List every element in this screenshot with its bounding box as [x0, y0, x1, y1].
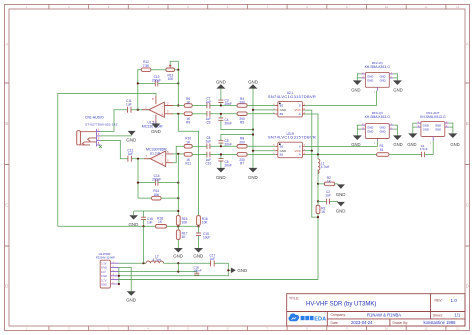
svg-text:SN74LVC1G3157DBVR: SN74LVC1G3157DBVR [268, 94, 316, 99]
ground right-facing at C17 [231, 268, 247, 274]
svg-text:1uF: 1uF [325, 194, 331, 198]
ground RF2 left [351, 80, 362, 92]
wire row2 R9-C9 [192, 113, 207, 115]
svg-text:3.3V: 3.3V [101, 261, 107, 265]
svg-text:20nF: 20nF [225, 122, 232, 126]
wire CN1 pin2 to gnd [101, 135, 132, 137]
wire H1 pin4 gnd row [119, 275, 228, 277]
ground above net [248, 80, 258, 89]
svg-text:TITLE:: TITLE: [289, 296, 299, 300]
EasyEDA logo [289, 313, 327, 322]
svg-text:GND: GND [173, 254, 183, 259]
node pin6 feedback junction [177, 153, 179, 155]
svg-text:GND: GND [101, 266, 107, 270]
svg-text:GND: GND [435, 128, 441, 132]
frame column ticks bottom [49, 326, 446, 331]
svg-text:B2: B2 [280, 104, 284, 108]
ground H1 [126, 291, 136, 302]
frame row ticks right [465, 83, 470, 246]
svg-text:1uF: 1uF [210, 257, 216, 261]
ground after C2 [336, 202, 346, 214]
wire R1 to C1 [389, 154, 422, 156]
ground after R2 [336, 184, 346, 196]
svg-text:-: - [162, 153, 163, 157]
node C5 gnd link [252, 133, 254, 135]
svg-text:Date:: Date: [331, 321, 339, 325]
svg-text:B2: B2 [280, 145, 284, 149]
svg-text:1uF: 1uF [206, 140, 212, 144]
svg-text:GND: GND [126, 138, 136, 143]
node gnd pin4 [118, 275, 120, 277]
IC U2-L SN74LVC1G3157 [268, 91, 316, 117]
svg-text:20nF: 20nF [225, 164, 232, 168]
svg-text:GND: GND [193, 254, 203, 259]
trimmer R13 [166, 65, 175, 81]
node C2 tap [317, 200, 319, 202]
svg-text:12: 12 [456, 327, 460, 331]
capacitor C10 [205, 152, 211, 166]
ground U1.1 pin4 [151, 124, 161, 134]
svg-text:A: A [466, 41, 469, 46]
capacitor C14 [152, 174, 161, 186]
svg-text:200pF: 200pF [152, 178, 161, 182]
wire U2 gnd pin row [253, 109, 275, 111]
svg-text:GND: GND [101, 283, 107, 287]
svg-text:GND: GND [216, 80, 226, 85]
node gnd net row1 [252, 109, 254, 111]
resistor R17 [176, 226, 187, 248]
ground below R17 [173, 248, 183, 259]
CN1 pin column [97, 129, 101, 147]
node C4 gnd link [252, 128, 254, 130]
wire U2 VCC down [305, 110, 312, 151]
wire R12 to R13 [151, 69, 166, 71]
node 3V3 row [177, 262, 179, 264]
node gnd pin6 [118, 283, 120, 285]
node C13 left [137, 82, 139, 84]
connector RF1-ANT [413, 111, 453, 145]
wire R7 to U3 pin B1 [247, 153, 275, 155]
capacitor C6 [218, 154, 231, 168]
node C6 row4 [220, 153, 222, 155]
svg-text:GND: GND [248, 80, 258, 85]
svg-text:C: C [5, 203, 8, 208]
resistor R10 [184, 137, 192, 148]
wire feedback vertical pin6 down [177, 154, 179, 216]
svg-text:MC33078DR: MC33078DR [142, 124, 163, 128]
resistor R4 [237, 97, 247, 107]
svg-text:GND: GND [380, 126, 386, 130]
svg-text:C10: C10 [205, 161, 211, 165]
wire R5 to U2 pin B1 [247, 113, 275, 115]
resistor R15 [176, 216, 188, 226]
svg-text:R1NAW & R1NBA: R1NAW & R1NBA [367, 312, 401, 317]
wire VCC down to R3 node [312, 151, 318, 217]
svg-text:S: S [299, 145, 301, 149]
svg-text:ST-0277D00-052-142: ST-0277D00-052-142 [85, 122, 118, 126]
resistor R3 [119, 201, 326, 279]
svg-text:GND: GND [367, 74, 373, 78]
svg-text:GND: GND [393, 142, 402, 147]
svg-text:R7: R7 [240, 161, 244, 165]
no-connect X on CN1 pin 5 [99, 145, 102, 148]
capacitor C18 [193, 266, 202, 276]
svg-text:GND: GND [151, 129, 161, 134]
capacitor C12 [127, 148, 133, 161]
wire row3 C8-R8 [210, 145, 237, 147]
wire H1 pin5 vcc row [119, 279, 318, 281]
node A tie [317, 153, 319, 155]
wire C11 to U1.1 output [131, 109, 150, 111]
svg-text:200pF: 200pF [152, 78, 161, 82]
svg-text:D: D [5, 284, 8, 289]
wire U3 A row [305, 154, 377, 156]
svg-text:B1: B1 [280, 153, 284, 157]
capacitor C4 [218, 114, 253, 130]
svg-text:A: A [299, 153, 301, 157]
wire R4 to U2 pin B2 [247, 105, 275, 107]
node VCC tie [311, 150, 313, 152]
svg-text:4.7uH: 4.7uH [152, 258, 161, 262]
resistor R16 [197, 216, 209, 226]
svg-text:KH-SMA-K513-G: KH-SMA-K513-G [365, 65, 391, 69]
frame row ticks left [5, 83, 10, 246]
svg-text:1uF: 1uF [128, 152, 134, 156]
capacitor C2 [318, 190, 338, 204]
svg-text:konstantine 1988: konstantine 1988 [424, 320, 457, 325]
node C16 bottom [142, 225, 144, 227]
svg-text:GND: GND [351, 142, 360, 147]
svg-text:10uF: 10uF [203, 236, 210, 240]
wire R13 right to feedback node [175, 69, 179, 71]
resistor R1 [377, 144, 390, 156]
node U1.1 output junction [137, 109, 139, 111]
capacitor C13 [152, 75, 161, 87]
capacitor C7 [206, 96, 212, 108]
svg-text:U1.2-R: U1.2-R [150, 152, 161, 156]
node gnd net row3 [252, 150, 254, 152]
node pin3 bias tap [177, 113, 179, 115]
node C3 row1 [220, 104, 222, 106]
svg-text:R9: R9 [186, 121, 190, 125]
node R3 vcc junction [317, 216, 319, 218]
svg-text:KH-SMA-K513-G: KH-SMA-K513-G [420, 115, 446, 119]
svg-text:A: A [299, 112, 301, 116]
resistor R5 [237, 112, 247, 125]
ground above C3 [216, 80, 226, 89]
wire U1.1 pin2 row [173, 105, 184, 107]
svg-text:KH-SMA-K513-G: KH-SMA-K513-G [365, 115, 391, 119]
svg-text:GND: GND [126, 298, 136, 303]
svg-text:GND: GND [367, 126, 373, 130]
capacitor C16 [141, 211, 153, 226]
wire L1 to C2 [317, 184, 319, 202]
svg-text:11: 11 [425, 5, 428, 9]
frame column ticks top [49, 5, 446, 10]
svg-text:R5: R5 [240, 121, 244, 125]
wire bias path pin3 down to R16 [178, 114, 198, 216]
svg-text:20nF: 20nF [225, 102, 232, 106]
resistor R12 [141, 60, 151, 71]
svg-text:200: 200 [239, 140, 245, 144]
capacitor C17 [209, 254, 215, 267]
node R13 wiper junction [177, 69, 179, 71]
resistor R18 [156, 217, 167, 229]
wire H1 gnd pins link [119, 267, 131, 291]
connector RF3-Q/I [357, 111, 397, 145]
node R14 right [177, 197, 179, 199]
wire U1.2 feedback vertical [137, 159, 139, 198]
node C14 left [137, 182, 139, 184]
svg-text:10K: 10K [168, 77, 175, 81]
wire U1.1 pin3 row [173, 113, 184, 115]
node R2 tap [317, 183, 319, 185]
svg-text:PZ254V-11-06P: PZ254V-11-06P [96, 255, 115, 259]
wire C14 row [138, 182, 178, 184]
ground at bias rail left [129, 211, 139, 227]
svg-text:GND: GND [248, 175, 258, 180]
wire bias row y226 [58, 225, 199, 227]
svg-text:REV:: REV: [435, 299, 443, 303]
svg-text:11: 11 [425, 327, 428, 331]
resistor R9 [184, 112, 192, 125]
svg-text:GND: GND [237, 268, 247, 273]
ground below C15 [193, 248, 203, 259]
svg-text:GND: GND [351, 88, 360, 93]
wire 3V3 to 12V row link [177, 263, 179, 271]
svg-text:1uF: 1uF [126, 102, 132, 106]
wire row3 R10-C8 [192, 145, 207, 147]
resistor R2 [318, 176, 338, 186]
svg-text:7.5K: 7.5K [143, 64, 150, 68]
svg-text:C: C [466, 203, 469, 208]
svg-text:R11: R11 [185, 161, 191, 165]
svg-text:3.7V: 3.7V [101, 279, 107, 283]
node C5 row3 [220, 145, 222, 147]
op-amp U1.1 [142, 96, 173, 129]
svg-text:GND: GND [336, 192, 346, 197]
node C4 row2 [220, 113, 222, 115]
svg-text:C9: C9 [206, 121, 210, 125]
svg-text:12V: 12V [101, 270, 106, 274]
svg-text:A: A [5, 41, 8, 46]
wire C12 to U1.2 output [131, 158, 150, 160]
svg-text:GND: GND [101, 274, 107, 278]
wire H1 pin3 12V row [119, 271, 197, 273]
wire C13 row [138, 82, 179, 84]
wire U3 gnd pin row [253, 150, 275, 152]
wire U1.2 pin5 to row R10 [173, 146, 184, 162]
inductor L1 [318, 155, 330, 184]
capacitor C11 [126, 99, 132, 113]
svg-text:10K: 10K [153, 193, 160, 197]
inductor L2 [146, 254, 164, 263]
svg-text:2023-04-24: 2023-04-24 [351, 320, 373, 325]
wire C16 net down to 3V3 [143, 226, 145, 263]
svg-text:+: + [161, 162, 163, 166]
ground net vertical x253 [252, 89, 254, 168]
svg-text:HV-VHF SDR (by UT3MK): HV-VHF SDR (by UT3MK) [306, 302, 376, 308]
svg-text:GND: GND [423, 128, 429, 132]
title block [287, 294, 465, 326]
ground RF1 left [407, 133, 417, 147]
svg-text:200: 200 [239, 100, 245, 104]
svg-text:S: S [299, 104, 301, 108]
node bias row R15 junction [177, 225, 179, 227]
ground RF2 right [393, 80, 403, 92]
capacitor C5 [218, 135, 253, 147]
svg-text:10: 10 [385, 5, 389, 9]
wire R13 wiper loop [170, 61, 178, 70]
node C13 right [177, 82, 179, 84]
capacitor C1 [420, 144, 428, 157]
wire row4 C10-R7 [210, 153, 237, 155]
ground below net [248, 168, 258, 180]
svg-text:Drawn By:: Drawn By: [393, 321, 409, 325]
svg-text:D: D [466, 284, 469, 289]
svg-text:+: + [161, 113, 163, 117]
svg-text:GND: GND [367, 130, 373, 134]
svg-text:GND: GND [393, 88, 402, 93]
svg-text:10K: 10K [202, 221, 209, 225]
svg-text:GND: GND [380, 130, 386, 134]
svg-text:SN74LVC1G3157DBVR: SN74LVC1G3157DBVR [268, 135, 316, 140]
svg-text:GND: GND [380, 78, 386, 82]
resistor R6 [184, 97, 192, 107]
svg-text:1/1: 1/1 [455, 313, 461, 318]
capacitor C8 [206, 136, 212, 149]
svg-text:B: B [5, 121, 8, 126]
wire gnd rail of bias divider [134, 210, 179, 212]
ground below C6 [216, 168, 226, 180]
svg-text:GND: GND [435, 124, 441, 128]
wire row1 R6-C7 [192, 105, 207, 107]
connector CN1-AUDIO labels [85, 115, 118, 126]
svg-text:GND: GND [216, 175, 226, 180]
wire CN1 pin1 to C11 [101, 110, 128, 132]
svg-text:Sheet:: Sheet: [433, 314, 443, 318]
node U1.2 output junction [137, 158, 139, 160]
svg-text:GND: GND [367, 78, 373, 82]
svg-text:B: B [466, 121, 469, 126]
svg-text:GND: GND [450, 142, 459, 147]
node bias row R16 junction [197, 225, 199, 227]
capacitor C15 [196, 226, 210, 248]
wire H1 pin1 to L2 [119, 262, 146, 264]
svg-text:1.0: 1.0 [451, 298, 458, 303]
svg-text:B1: B1 [280, 112, 284, 116]
frame row letters [5, 41, 469, 288]
svg-text:-: - [162, 104, 163, 108]
svg-text:10: 10 [385, 327, 389, 331]
node L2 left / C16 branch [142, 262, 144, 264]
svg-text:51: 51 [380, 148, 384, 152]
node 12V C18 branch [177, 271, 179, 273]
ground CN1 pin2 [126, 131, 136, 143]
svg-text:GND: GND [423, 124, 429, 128]
wire VCC rail to U1.1 pin8 [58, 94, 156, 227]
node gnd tap [227, 269, 229, 271]
svg-text:Company:: Company: [331, 313, 347, 317]
svg-text:100nF: 100nF [193, 269, 202, 273]
svg-text:4.7uH: 4.7uH [321, 165, 330, 169]
wire U2 S row to RF2 [305, 91, 377, 106]
svg-text:GND: GND [336, 209, 346, 214]
svg-text:CN1-AUDIO: CN1-AUDIO [85, 115, 104, 119]
svg-text:H1-PWR: H1-PWR [99, 252, 112, 256]
capacitor C9 [206, 111, 212, 125]
svg-text:1uF: 1uF [147, 221, 153, 225]
node bias rail right [177, 210, 179, 212]
wire U1.2 pin6 row [173, 153, 184, 155]
wire feedback vertical to U1.1 pin2 [177, 70, 179, 106]
resistor R7 [237, 153, 247, 166]
connector CN1-AUDIO jack symbol [77, 131, 97, 146]
resistor R8 [237, 137, 247, 148]
wire U3 S row to RF3 [305, 141, 378, 147]
svg-text:GND: GND [380, 74, 386, 78]
wire R14 row [138, 197, 178, 199]
wire L2 to C17 [164, 262, 211, 264]
capacitor C3 [218, 89, 231, 106]
wire U3 VCC row [305, 150, 312, 152]
connector RF2-I/Q [357, 61, 397, 94]
resistor R14 [152, 189, 162, 200]
node feedback pin2 [177, 104, 179, 106]
ground RF1 right [448, 133, 459, 147]
ground RF3 left [351, 135, 362, 146]
wire row4 R11-C10 [192, 153, 207, 155]
wire CN1 pin3 to C12 [101, 140, 128, 158]
connector H1-PWR [96, 252, 119, 288]
node C14 right [177, 182, 179, 184]
wire R8 to U3 pin B2 [247, 145, 275, 147]
svg-text:20nF: 20nF [225, 143, 232, 147]
ground RF3 right [393, 135, 403, 146]
svg-text:10K: 10K [182, 221, 189, 225]
wire row2 C9-R5 [210, 113, 237, 115]
wire U2 A down [305, 114, 318, 155]
wire C1 to RF1 [425, 141, 434, 155]
svg-text:GND: GND [407, 142, 416, 147]
resistor R11 [184, 153, 192, 166]
op-amp U1.2 [144, 147, 173, 166]
svg-text:1.5nF: 1.5nF [420, 147, 428, 151]
wire row1 C7-R4 [210, 105, 237, 107]
svg-text:12: 12 [456, 5, 460, 9]
svg-text:1uF: 1uF [206, 100, 212, 104]
wire C17 to gnd corner [214, 263, 231, 276]
IC U3-R SN74LVC1G3157 [268, 132, 316, 158]
svg-text:EDA: EDA [314, 316, 326, 322]
wire R12 left leg [138, 70, 142, 110]
